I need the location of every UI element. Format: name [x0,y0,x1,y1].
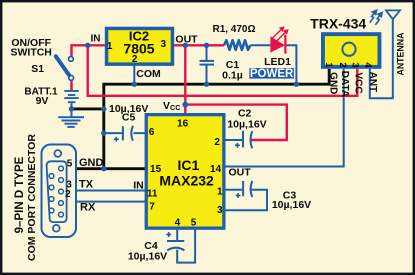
svg-text:SWITCH: SWITCH [10,47,51,59]
svg-text:LED1: LED1 [264,56,291,68]
svg-text:1: 1 [217,187,223,198]
svg-text:3: 3 [161,39,167,50]
svg-text:10µ,16V: 10µ,16V [109,103,148,115]
svg-text:RX: RX [80,202,96,214]
svg-text:TX: TX [79,179,94,191]
svg-text:16: 16 [177,119,189,130]
svg-text:TRX-434: TRX-434 [310,16,366,32]
svg-text:IN: IN [91,34,101,45]
svg-text:POWER: POWER [250,68,294,80]
svg-text:GND: GND [328,72,339,94]
svg-text:15: 15 [150,164,162,175]
svg-text:ANTENNA: ANTENNA [395,32,405,76]
svg-text:3: 3 [217,205,223,216]
svg-text:OUT: OUT [175,34,198,46]
svg-text:7: 7 [149,201,155,212]
svg-text:2: 2 [65,189,71,200]
svg-text:OUT: OUT [229,167,252,179]
svg-text:5: 5 [67,159,73,170]
svg-text:9V: 9V [36,95,49,107]
svg-text:VCC: VCC [352,72,363,93]
svg-text:10µ,16V: 10µ,16V [128,250,167,262]
svg-text:2: 2 [132,54,138,65]
svg-text:COM: COM [136,68,161,80]
svg-text:1: 1 [107,41,113,52]
svg-text:6: 6 [149,127,155,138]
svg-text:9–PIN D TYPE: 9–PIN D TYPE [14,156,26,233]
svg-text:5: 5 [191,218,197,229]
svg-text:7805: 7805 [123,40,154,56]
svg-text:1: 1 [323,62,334,68]
svg-text:GND: GND [79,157,104,169]
svg-text:14: 14 [210,164,222,175]
svg-text:3: 3 [350,62,361,67]
svg-text:10µ,16V: 10µ,16V [272,199,311,211]
svg-text:4: 4 [175,218,181,229]
svg-text:2: 2 [214,137,220,148]
svg-text:S1: S1 [31,63,44,75]
svg-text:IC1: IC1 [178,157,200,173]
svg-text:11: 11 [147,188,158,199]
svg-text:2: 2 [337,62,348,67]
svg-text:IN: IN [133,180,144,192]
svg-text:COM PORT CONNECTOR: COM PORT CONNECTOR [26,134,38,261]
svg-text:ANT: ANT [367,72,378,93]
svg-text:0.1µ: 0.1µ [222,70,243,82]
svg-text:10µ,16V: 10µ,16V [227,119,266,131]
svg-text:R1, 470Ω: R1, 470Ω [212,24,255,35]
svg-text:MAX232: MAX232 [159,172,214,188]
svg-text:4: 4 [362,62,373,68]
svg-text:DATA: DATA [339,71,350,97]
